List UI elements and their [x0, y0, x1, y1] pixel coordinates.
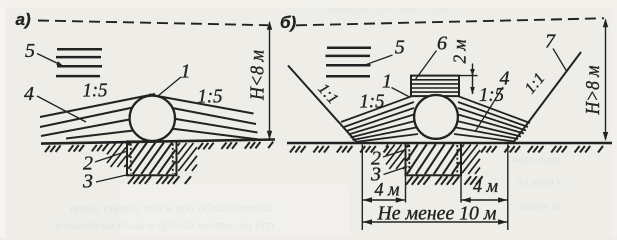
leader 6 (б): [415, 51, 437, 81]
svg-text:H>8 м: H>8 м: [582, 65, 604, 115]
dimension 4 м right line (б): [461, 197, 508, 202]
svg-text:7: 7: [545, 31, 556, 53]
dimension line H&lt;8 м (а): [267, 21, 272, 140]
extension line trench right (б): [460, 176, 462, 203]
soil block 6 inner lines (б): [412, 80, 458, 92]
svg-text:4 м: 4 м: [375, 180, 400, 201]
ground hatch band left (а): [45, 145, 107, 153]
svg-text:1: 1: [382, 71, 392, 93]
extension line outer left (б): [361, 145, 363, 231]
label 1 (б): [382, 71, 392, 93]
label 6 (б): [437, 33, 447, 55]
svg-text:до влад п: до влад п: [516, 175, 563, 189]
svg-text:H<8 м: H<8 м: [247, 50, 269, 101]
ground hatch band left (б): [290, 146, 389, 153]
label б): [280, 13, 297, 32]
fan line G2 (б): [458, 102, 528, 127]
dimension text 4 м right (б): [473, 176, 498, 197]
dimension 4 м left line (б): [362, 197, 405, 202]
ground hatch deep patch right of trench (б): [462, 145, 480, 175]
slope text 1:1 right (б): [522, 70, 549, 97]
ground hatch deep patch left of trench (а): [107, 143, 126, 167]
slope text 1:5 right (а): [198, 86, 223, 108]
leader 5 (б): [364, 55, 393, 65]
embankment top dashed line (а): [38, 21, 268, 26]
trench outline (б): [406, 143, 462, 175]
svg-text:4. Синтеграл про схемы тилен: 4. Синтеграл про схемы тилен: [310, 4, 455, 16]
svg-text:пруса спараг тася про облицо: пруса спараг тася про облицованной: [70, 200, 274, 215]
slope text 1:5 left (б): [360, 91, 385, 113]
leader 4 (б): [476, 87, 504, 131]
slope line 1:1 right (б): [514, 52, 581, 142]
svg-text:Не менее 10 м: Не менее 10 м: [377, 203, 497, 225]
fan line F2 (б): [344, 102, 414, 127]
slope line 1:1 left (б): [288, 66, 357, 143]
embankment top dashed line (б): [296, 18, 604, 25]
svg-text:1:5: 1:5: [198, 86, 223, 108]
ground line (а): [41, 140, 275, 144]
dimension 2 м line (б): [470, 64, 475, 95]
ghost print-through text: [55, 4, 563, 232]
dimension text Не менее 10 м (б): [377, 203, 497, 225]
soil block 6 outline (б): [411, 76, 459, 97]
fan line F7 (б): [355, 134, 418, 142]
label а): [16, 10, 31, 29]
trench wall dotted line left (а): [130, 144, 132, 174]
leader 3 (б): [384, 167, 408, 175]
trench wall dotted line right (а): [172, 144, 174, 174]
fan line G6 (б): [456, 128, 518, 140]
fan line G1 (б): [459, 96, 531, 123]
extension line outer right (б): [507, 145, 509, 231]
label 5 (а): [25, 40, 35, 62]
svg-text:и вывезена была в другой честв: и вывезена была в другой честве на бер: [55, 217, 274, 232]
ground hatch row below trench (б): [406, 176, 483, 184]
dimension Не менее 10 м line (б): [362, 219, 508, 224]
svg-text:3: 3: [82, 171, 93, 193]
fan line G7 (б): [454, 134, 515, 142]
dimension text 4 м left (б): [375, 180, 400, 201]
leader 1 (б): [392, 88, 410, 98]
layer line R3 right (а): [167, 118, 258, 133]
trench outline (а): [127, 141, 177, 175]
fan line F5 (б): [351, 121, 416, 138]
label 2 (б): [371, 148, 381, 170]
fan line G5 (б): [457, 121, 521, 137]
svg-text:4 м: 4 м: [473, 176, 498, 197]
label 5 (б): [395, 37, 405, 59]
label 4 (б): [500, 68, 510, 90]
layer line L4 left (а): [66, 130, 142, 139]
dimension 2 м tick (б): [459, 75, 478, 77]
leader 7 (б): [553, 49, 567, 72]
ground hatch band right (а): [198, 142, 273, 150]
svg-text:5: 5: [395, 37, 405, 59]
dimension text H&gt;8 м (б): [582, 65, 604, 115]
layer line L3 left (а): [41, 118, 140, 137]
layer line L2 left (а): [40, 106, 140, 127]
svg-text:1:5: 1:5: [83, 80, 108, 102]
fan line F4 (б): [349, 115, 415, 135]
svg-text:нась пове: нась пове: [512, 152, 561, 166]
leader 2 (а): [95, 152, 126, 163]
topsoil layer lines 5 (а): [56, 49, 102, 76]
leader 3 (а): [96, 175, 129, 183]
topsoil layer lines 5 (б): [326, 48, 372, 77]
dimension text H&lt;8 м (а): [247, 50, 269, 101]
svg-text:а): а): [16, 10, 31, 29]
ground line (б): [287, 142, 612, 145]
fan line F3 (б): [347, 108, 415, 131]
dimension text 2 м (б): [450, 39, 470, 63]
trench hatch (а): [128, 143, 175, 175]
svg-text:5: 5: [25, 40, 35, 62]
trench wall dotted line right (б): [456, 145, 458, 174]
pipe circle 1 (б): [414, 95, 458, 139]
svg-text:4: 4: [500, 68, 510, 90]
extension line trench left (б): [405, 176, 407, 203]
pipe circle 1 (а): [130, 96, 175, 141]
ground hatch deep patch right of trench (а): [178, 143, 197, 171]
label 7 (б): [545, 31, 556, 53]
ground hatch row below trench (а): [128, 176, 191, 184]
layer line L1 1:5 surface left (а): [40, 94, 155, 117]
slope text 1:5 right (б): [479, 84, 504, 106]
trench hatch (б): [407, 144, 460, 174]
fan line G3 (б): [458, 108, 526, 131]
svg-text:6: 6: [437, 33, 447, 55]
leader 5 with arrowhead (а): [37, 54, 64, 67]
ground hatch deep patch left of trench (б): [386, 145, 405, 170]
svg-text:канав т: канав т: [520, 199, 560, 213]
slope text 1:5 left (а): [83, 80, 108, 102]
dimension line H&gt;8 м (б): [603, 18, 608, 141]
trench wall dotted line left (б): [408, 145, 410, 174]
svg-text:б): б): [280, 13, 297, 32]
leader 4 (а): [37, 96, 86, 122]
layer line R4 right (а): [167, 128, 259, 140]
svg-text:1:5: 1:5: [360, 91, 385, 113]
fan line F6 (б): [353, 128, 417, 141]
leader 1 (а): [159, 77, 182, 96]
svg-text:1: 1: [181, 61, 191, 83]
slope text 1:1 left (б): [314, 80, 341, 107]
ground hatch band right (б): [481, 146, 603, 153]
svg-text:2 м: 2 м: [450, 39, 470, 63]
label 3 (б): [370, 164, 381, 186]
leader 2 (б): [383, 150, 407, 158]
label 2 (а): [83, 153, 93, 175]
fan line F1 (б): [341, 96, 412, 122]
layer line R1 1:5 surface right (а): [149, 95, 254, 114]
label 1 (а): [181, 61, 191, 83]
label 4 (а): [24, 83, 34, 105]
svg-text:4: 4: [24, 83, 34, 105]
fan line G4 (б): [458, 115, 524, 134]
layer line R2 right (а): [167, 107, 256, 124]
label 3 (а): [82, 171, 93, 193]
